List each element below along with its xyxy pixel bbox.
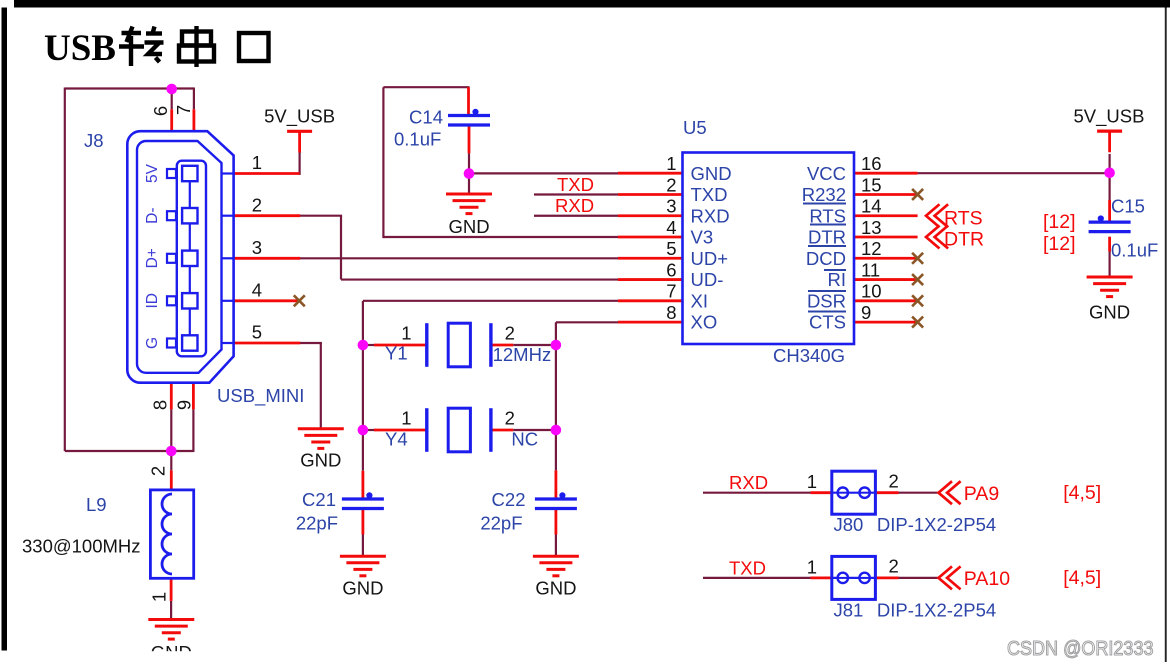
svg-text:D+: D+ — [144, 248, 161, 268]
svg-text:TXD: TXD — [557, 174, 594, 195]
svg-text:5V_USB: 5V_USB — [264, 106, 335, 128]
svg-text:2: 2 — [505, 408, 515, 429]
svg-text:GND: GND — [691, 163, 732, 184]
svg-text:10: 10 — [861, 281, 882, 302]
svg-text:4: 4 — [666, 217, 676, 238]
svg-text:GND: GND — [300, 450, 341, 471]
svg-text:R232: R232 — [802, 184, 846, 205]
svg-text:3: 3 — [252, 237, 262, 258]
svg-text:DIP-1X2-2P54: DIP-1X2-2P54 — [877, 599, 996, 620]
svg-text:USB: USB — [44, 28, 116, 69]
svg-text:1: 1 — [401, 323, 411, 344]
svg-text:Y1: Y1 — [385, 343, 408, 364]
svg-text:5: 5 — [252, 322, 262, 343]
svg-text:1: 1 — [149, 592, 170, 602]
svg-text:CSDN @ORI2333: CSDN @ORI2333 — [1007, 637, 1154, 660]
svg-text:9: 9 — [174, 400, 195, 410]
svg-text:UD+: UD+ — [691, 248, 729, 269]
svg-text:GND: GND — [342, 578, 383, 599]
svg-text:DIP-1X2-2P54: DIP-1X2-2P54 — [877, 514, 996, 535]
svg-text:5V: 5V — [144, 163, 161, 183]
svg-text:7: 7 — [666, 281, 676, 302]
svg-text:RXD: RXD — [691, 205, 730, 226]
svg-text:6: 6 — [150, 106, 171, 116]
svg-text:1: 1 — [666, 153, 676, 174]
svg-text:6: 6 — [666, 259, 676, 280]
svg-text:USB_MINI: USB_MINI — [217, 385, 304, 407]
svg-text:TXD: TXD — [691, 184, 728, 205]
svg-text:GND: GND — [448, 216, 489, 237]
svg-text:13: 13 — [861, 217, 882, 238]
svg-text:C22: C22 — [492, 489, 526, 510]
svg-text:C15: C15 — [1111, 196, 1145, 217]
svg-text:330@100MHz: 330@100MHz — [22, 535, 141, 556]
svg-text:RXD: RXD — [555, 195, 594, 216]
svg-text:5V_USB: 5V_USB — [1074, 106, 1145, 128]
svg-text:U5: U5 — [683, 117, 707, 138]
svg-text:J80: J80 — [834, 514, 864, 535]
svg-text:DCD: DCD — [806, 248, 846, 269]
svg-text:VCC: VCC — [807, 163, 846, 184]
svg-text:Y4: Y4 — [385, 428, 408, 449]
svg-text:DTR: DTR — [808, 227, 846, 248]
svg-text:RTS: RTS — [809, 205, 846, 226]
svg-text:1: 1 — [252, 152, 262, 173]
svg-text:2: 2 — [505, 323, 515, 344]
svg-text:RXD: RXD — [729, 472, 768, 493]
svg-text:22pF: 22pF — [480, 513, 522, 534]
svg-text:XI: XI — [691, 290, 708, 311]
svg-text:7: 7 — [173, 105, 194, 115]
svg-text:RTS: RTS — [944, 207, 983, 229]
svg-text:0.1uF: 0.1uF — [1111, 240, 1158, 261]
svg-text:2: 2 — [889, 556, 899, 577]
svg-text:8: 8 — [150, 400, 171, 410]
svg-text:[4,5]: [4,5] — [1063, 567, 1101, 589]
svg-text:4: 4 — [252, 280, 262, 301]
svg-text:1: 1 — [807, 556, 817, 577]
svg-text:[4,5]: [4,5] — [1063, 482, 1101, 504]
svg-text:3: 3 — [666, 196, 676, 217]
svg-text:PA10: PA10 — [964, 568, 1010, 590]
svg-text:ID: ID — [144, 293, 161, 309]
svg-text:J81: J81 — [834, 599, 864, 620]
svg-text:L9: L9 — [86, 494, 107, 515]
svg-text:DSR: DSR — [807, 290, 846, 311]
svg-text:[12]: [12] — [1043, 211, 1076, 233]
svg-text:C21: C21 — [302, 489, 336, 510]
svg-text:GND: GND — [1089, 302, 1130, 323]
svg-text:[12]: [12] — [1043, 233, 1076, 255]
svg-text:XO: XO — [691, 312, 718, 333]
svg-text:2: 2 — [889, 470, 899, 491]
svg-text:UD-: UD- — [691, 269, 724, 290]
svg-text:GND: GND — [535, 578, 576, 599]
svg-text:2: 2 — [252, 194, 262, 215]
svg-text:CH340G: CH340G — [773, 345, 845, 366]
svg-text:12MHz: 12MHz — [493, 344, 552, 365]
svg-text:PA9: PA9 — [964, 483, 999, 505]
svg-text:22pF: 22pF — [296, 513, 338, 534]
svg-text:15: 15 — [861, 174, 882, 195]
svg-text:2: 2 — [148, 466, 169, 476]
svg-text:11: 11 — [861, 259, 880, 280]
svg-text:14: 14 — [861, 196, 882, 217]
svg-text:D-: D- — [144, 208, 161, 224]
svg-text:12: 12 — [861, 238, 882, 259]
svg-text:C14: C14 — [409, 106, 443, 127]
svg-text:RI: RI — [828, 269, 847, 290]
svg-text:8: 8 — [666, 302, 676, 323]
svg-text:V3: V3 — [691, 227, 714, 248]
svg-text:0.1uF: 0.1uF — [394, 128, 441, 149]
svg-text:G: G — [144, 337, 161, 349]
svg-text:J8: J8 — [84, 130, 104, 151]
svg-text:1: 1 — [401, 408, 411, 429]
svg-text:1: 1 — [807, 471, 817, 492]
svg-text:CTS: CTS — [809, 312, 846, 333]
svg-text:TXD: TXD — [729, 557, 766, 578]
svg-text:2: 2 — [666, 174, 676, 195]
svg-text:DTR: DTR — [944, 228, 984, 250]
svg-text:9: 9 — [861, 302, 871, 323]
svg-text:5: 5 — [666, 238, 676, 259]
svg-text:NC: NC — [511, 429, 538, 450]
svg-text:16: 16 — [861, 153, 882, 174]
